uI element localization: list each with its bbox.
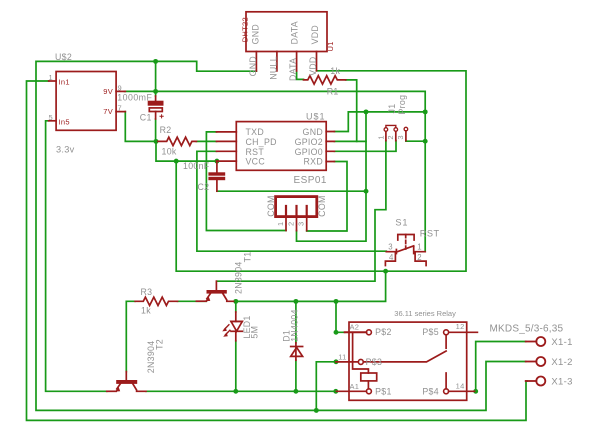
node LED1 bottom — [233, 389, 238, 394]
node 5V rail / C1 — [153, 89, 158, 94]
wire R2 right to CH_PD — [196, 140, 216, 142]
svg-text:2: 2 — [417, 253, 422, 262]
svg-text:2: 2 — [286, 222, 295, 226]
wire LED1 bottom — [235, 341, 237, 392]
resistor R2 10k — [158, 137, 196, 145]
wire In5 to T2 emitter — [46, 121, 107, 392]
node P$4 lead / X1-1 — [473, 389, 478, 394]
node GND line end / 5V vertical — [423, 109, 428, 114]
svg-text:5M: 5M — [250, 326, 260, 339]
svg-text:VDD: VDD — [310, 25, 320, 44]
switch S1 RST — [385, 235, 426, 266]
node VCC / C2 — [214, 159, 219, 164]
svg-text:DHT22: DHT22 — [240, 17, 249, 42]
diode LED1 — [222, 312, 242, 341]
wire bottom rail T2 collector to P$1 — [146, 390, 336, 392]
svg-text:CH_PD: CH_PD — [246, 137, 277, 147]
svg-text:J1: J1 — [387, 104, 397, 114]
svg-text:DATA: DATA — [290, 21, 300, 44]
svg-text:R2: R2 — [160, 125, 172, 135]
wire C2 bottom to COM pin2 riser — [217, 190, 366, 192]
svg-text:1: 1 — [49, 73, 53, 82]
wire LED1 top lead — [235, 301, 237, 312]
esp module U$1 ESP01 box — [217, 122, 335, 171]
svg-text:GND: GND — [248, 56, 258, 76]
wire D1 bottom — [295, 360, 297, 391]
wire 7V pin down to R2 junction — [125, 112, 156, 142]
svg-text:9: 9 — [118, 83, 122, 92]
svg-text:2N3904: 2N3904 — [234, 261, 244, 294]
svg-text:2: 2 — [386, 135, 395, 139]
wire DATA to R1 — [297, 71, 304, 79]
svg-text:R1: R1 — [327, 86, 339, 96]
node bottom rail / P$3 — [314, 408, 319, 413]
svg-text:1: 1 — [417, 243, 422, 252]
wire R2 junction down to VCC line — [156, 141, 217, 161]
wire relay coil rail from dot down to LED D1 P$2 — [236, 271, 386, 301]
svg-text:100nF: 100nF — [183, 161, 210, 171]
svg-text:1: 1 — [276, 222, 285, 226]
svg-text:NULL: NULL — [268, 56, 278, 80]
svg-text:36.11 series Relay: 36.11 series Relay — [394, 309, 456, 318]
svg-text:COM: COM — [317, 195, 327, 216]
svg-text:P$2: P$2 — [375, 327, 392, 337]
wire net 3.3Vtop: U$2 top to DHT22 GND, left rail, bottom rail to X1-2 — [36, 61, 526, 410]
wire GPIO0 to J1 pin2 — [334, 141, 396, 152]
svg-text:R3: R3 — [141, 287, 153, 297]
wire P$4 to X1-1 — [476, 342, 526, 392]
connector COM box — [276, 197, 317, 231]
svg-text:11: 11 — [338, 353, 346, 362]
wire RST to S1 pin3 — [197, 151, 386, 251]
svg-text:12: 12 — [456, 322, 465, 331]
svg-text:C1: C1 — [140, 112, 152, 122]
svg-text:7V: 7V — [103, 107, 113, 116]
svg-text:T1: T1 — [243, 252, 253, 263]
svg-text:P$5: P$5 — [422, 327, 439, 337]
wire branch to relay P$2 — [336, 301, 345, 332]
svg-text:MKDS_5/3-6,35: MKDS_5/3-6,35 — [490, 324, 564, 335]
svg-text:7: 7 — [118, 103, 122, 112]
svg-text:3: 3 — [388, 243, 393, 252]
svg-text:ESP01: ESP01 — [294, 175, 327, 186]
connector X1 MKDS pads — [526, 337, 546, 386]
svg-text:P$3: P$3 — [366, 357, 383, 367]
svg-text:GND: GND — [303, 127, 323, 137]
jumper J1 — [384, 125, 408, 140]
node top wire / C1 — [153, 59, 158, 64]
svg-text:RST: RST — [246, 147, 265, 157]
svg-text:U1: U1 — [326, 41, 335, 51]
svg-text:In1: In1 — [59, 78, 70, 87]
svg-text:1000mF: 1000mF — [117, 93, 152, 103]
svg-text:3: 3 — [296, 222, 305, 226]
node T1 base / LED1 — [233, 299, 238, 304]
svg-text:GPIO0: GPIO0 — [295, 147, 323, 157]
svg-text:X1-2: X1-2 — [551, 357, 572, 368]
svg-text:S1: S1 — [395, 218, 408, 228]
node P$2 branch top — [334, 299, 339, 304]
wire C1 top branch — [155, 61, 157, 96]
svg-text:X1-1: X1-1 — [551, 337, 572, 348]
wire TXD to COM pin1 — [206, 132, 286, 231]
wire VDD rail right and down to relay rail, up to VCC dot — [176, 71, 466, 271]
voltage regulator U$2 — [49, 72, 126, 131]
wire RXD to COM pin3 — [307, 162, 347, 232]
wire J1 pin1 to T1 base rail — [217, 141, 386, 282]
svg-text:In5: In5 — [59, 117, 70, 126]
wire ESP GND up to top GND line — [334, 112, 425, 132]
svg-text:1: 1 — [377, 135, 386, 139]
wire R3 left down to T2 base — [126, 301, 135, 371]
svg-text:1k: 1k — [330, 66, 340, 76]
svg-text:U$1: U$1 — [306, 112, 326, 122]
svg-text:GND: GND — [251, 24, 261, 44]
svg-text:U$2: U$2 — [55, 52, 72, 62]
svg-text:3.3v: 3.3v — [56, 144, 75, 154]
svg-text:10k: 10k — [162, 146, 177, 156]
node P$1 lead — [333, 389, 338, 394]
resistor R3 1k — [135, 297, 177, 305]
node D1 bottom — [293, 389, 298, 394]
wire In1 to X1-3 — [27, 81, 528, 420]
svg-text:RST: RST — [420, 228, 440, 238]
relay K1 36.11 series — [336, 322, 477, 400]
svg-text:1N4004: 1N4004 — [289, 309, 299, 342]
wire GPIO2 — [334, 140, 366, 142]
wire COM pin2 riser — [297, 112, 367, 241]
node P$2 lead — [334, 330, 339, 335]
svg-text:VCC: VCC — [246, 157, 266, 167]
transistor T2 2N3904 — [107, 372, 146, 392]
node D1 top — [293, 299, 298, 304]
node P$3 lead — [334, 359, 339, 364]
svg-text:X1-3: X1-3 — [551, 377, 572, 388]
svg-text:14: 14 — [456, 381, 465, 390]
sensor U1 DHT22 box — [246, 12, 327, 71]
node J1 pin3 / 5V vertical — [423, 139, 428, 144]
wire D1 top lead — [295, 301, 297, 342]
svg-text:1k: 1k — [141, 305, 151, 315]
node GND line / COM2 riser — [364, 109, 369, 114]
wire J1 pin3 to 5V vertical — [406, 140, 425, 143]
svg-text:P$4: P$4 — [422, 386, 439, 396]
svg-text:COM: COM — [266, 195, 276, 216]
diode D1 1N4004 — [291, 343, 303, 360]
resistor R1 1k — [304, 76, 346, 84]
svg-text:T2: T2 — [154, 339, 164, 350]
node VCC / VDD riser — [174, 159, 179, 164]
capacitor C2 100nF — [208, 161, 225, 191]
wire C1 bottom branch — [155, 119, 157, 141]
capacitor C1 1000mF polarized — [148, 96, 164, 119]
svg-text:3: 3 — [396, 135, 405, 139]
svg-text:A1: A1 — [350, 382, 360, 391]
node R2 left — [154, 139, 159, 144]
wire T1 emitter to R3 — [178, 300, 207, 302]
wire P$3 to bottom rail — [316, 362, 336, 411]
svg-text:TXD: TXD — [246, 127, 265, 137]
svg-text:DATA: DATA — [288, 58, 298, 81]
svg-text:GPIO2: GPIO2 — [295, 137, 323, 147]
svg-text:P$1: P$1 — [375, 386, 392, 396]
node C2 line / riser — [364, 189, 369, 194]
svg-text:RXD: RXD — [304, 157, 323, 167]
svg-text:C2: C2 — [198, 182, 210, 192]
wire R1 right down to GPIO2 line — [346, 80, 357, 141]
svg-text:Prog: Prog — [397, 95, 407, 115]
svg-text:5: 5 — [49, 113, 53, 122]
svg-text:9V: 9V — [103, 87, 113, 96]
wire 5V rail to S1 pin1 — [125, 91, 426, 251]
transistor T1 2N3904 — [196, 281, 233, 301]
svg-text:VDD: VDD — [308, 56, 318, 75]
svg-text:4: 4 — [389, 253, 394, 262]
svg-text:A2: A2 — [350, 323, 360, 332]
node VDD rail / coil branch — [383, 269, 388, 274]
